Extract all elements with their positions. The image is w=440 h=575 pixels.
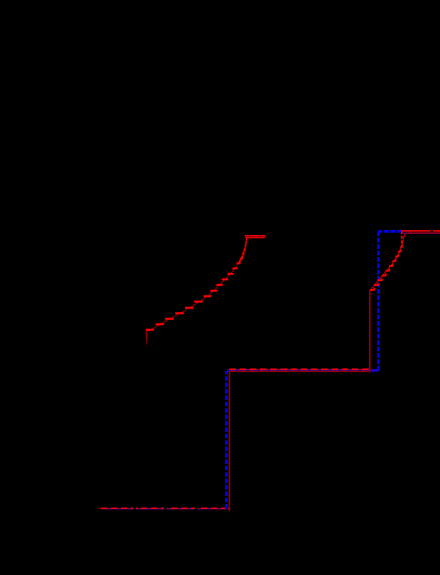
fitted solid curve 2 (dark red): big vertical, mid horizontal, right riser bbox=[229, 291, 369, 508]
bottom horizontal dash-pattern black notches bbox=[133, 507, 227, 511]
fitted curve 1 flat top (second line) bbox=[246, 237, 265, 239]
empirical dashed staircase 1 (bright red), upper-left group bbox=[146, 237, 248, 329]
bottom horizontal: bright red dashes bbox=[101, 507, 230, 509]
empirical dashed 2: top flat with long dashes bbox=[402, 230, 440, 232]
blue dashed step curve: top horizontal run bbox=[378, 230, 401, 233]
bottom horizontal: blue-under-red base (reads purple) bbox=[101, 508, 230, 510]
faint red tint over mid horizontal gaps bbox=[229, 368, 369, 370]
fitted curve 1 fading vertical tail bbox=[146, 332, 148, 347]
staircase 1 flat top bbox=[245, 235, 266, 237]
fitted curve 2 fading bottom tail bbox=[228, 508, 230, 513]
blue dashed step curve: lower vertical riser bbox=[225, 371, 228, 509]
fitted solid curve 2 smooth rise and top flat bbox=[370, 233, 440, 291]
blue step curve continuation under top-right flat (reads purple) bbox=[404, 232, 440, 234]
empirical dashed 2: small staircase marks on the rise bbox=[370, 231, 402, 290]
fitted solid curve 1 (dark red smooth), upper-left group bbox=[146, 238, 247, 333]
empirical dashed 2: mid horizontal bright dashes bbox=[229, 368, 369, 370]
blue dashed step curve: tall right riser bbox=[377, 231, 380, 371]
bottom horizontal faint lead-in bbox=[98, 507, 101, 509]
blue step curve: mid horizontal run (reads purple under red) bbox=[227, 369, 378, 372]
